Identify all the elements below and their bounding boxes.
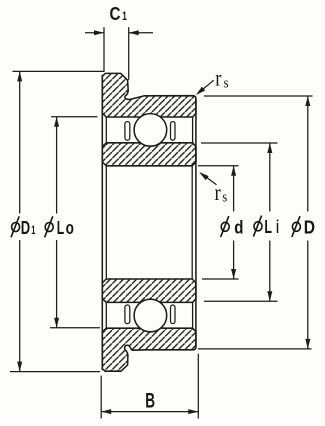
svg-text:B: B (145, 390, 155, 413)
svg-text:L: L (57, 217, 64, 238)
d dimension line (233, 166, 235, 279)
chamfer witness line right, bore (191, 166, 193, 279)
C1 extension line right (128, 27, 130, 80)
Lo bottom extension line (50, 327, 100, 329)
C1 extension line left (103, 27, 105, 71)
chamfer witness line left, ball gap upper (105, 117, 107, 143)
svg-text:L: L (264, 216, 272, 237)
cage slot lower left (125, 305, 130, 324)
Li arrow top (267, 143, 272, 153)
D1 arrow bottom (17, 362, 22, 372)
B extension line left (100, 376, 102, 419)
D bottom extension line (198, 348, 312, 350)
d top extension line (198, 165, 239, 167)
svg-text:r: r (215, 180, 221, 205)
svg-text:D: D (21, 217, 30, 238)
rs top leader arrow (194, 87, 205, 97)
d arrow top (231, 166, 236, 176)
Lo arrow top (54, 117, 59, 127)
rs bottom leader line (201, 173, 217, 185)
D1 top extension line (13, 70, 105, 72)
Li bottom extension line (204, 300, 278, 302)
Lo top extension line (51, 116, 98, 118)
B arrow left (101, 409, 111, 414)
B extension line right (197, 354, 199, 419)
B arrow right (188, 409, 198, 414)
svg-text:1: 1 (122, 9, 127, 23)
svg-text:C: C (110, 3, 121, 24)
C1 dimension line left tail (85, 32, 104, 34)
inner ring lower section (hatched) (102, 279, 196, 302)
chamfer witness line right, ball gap lower (192, 302, 194, 328)
svg-text:1: 1 (31, 223, 35, 237)
rs top leader line (198, 80, 214, 93)
svg-text:s: s (224, 76, 229, 92)
D top extension line (204, 95, 313, 97)
D1 dimension line (19, 71, 21, 371)
C1 arrow left (94, 30, 104, 35)
phi symbol of Li (253, 216, 262, 237)
ball upper (134, 114, 167, 147)
svg-text:r: r (215, 66, 221, 91)
d arrow bottom (231, 269, 236, 279)
cage slot upper right (171, 122, 176, 141)
chamfer witness line right, ball gap upper (192, 117, 194, 143)
Lo arrow bottom (54, 318, 59, 328)
svg-text:o: o (66, 217, 74, 238)
D dimension line (307, 96, 309, 349)
phi symbol of D (292, 216, 301, 237)
svg-text:D: D (304, 217, 315, 238)
Li arrow bottom (267, 291, 272, 301)
phi symbol of d (221, 216, 230, 237)
outer ring lower section with flange (hatched) (102, 328, 196, 371)
svg-text:i: i (276, 216, 279, 237)
svg-text:d: d (234, 217, 243, 238)
left face line (101, 75, 103, 370)
D1 bottom extension line (10, 371, 100, 373)
Li dimension line (269, 143, 271, 301)
d bottom extension line (202, 278, 239, 280)
inner ring upper section (hatched) (102, 143, 196, 166)
C1 dimension line right tail (129, 32, 153, 34)
chamfer witness line left, ball gap lower (105, 302, 107, 328)
right face line (195, 98, 197, 347)
D arrow top (305, 96, 310, 106)
cage slot upper left (125, 122, 130, 141)
C1 arrow right (129, 30, 139, 35)
D1 arrow top (17, 71, 22, 81)
svg-text:s: s (222, 190, 227, 206)
ball lower (134, 299, 167, 332)
rs bottom leader arrow (198, 170, 209, 180)
outer ring upper section with flange (hatched) (102, 73, 196, 117)
phi symbol of Lo (45, 216, 54, 237)
phi symbol of D1 (11, 216, 20, 237)
cage slot lower right (171, 305, 176, 324)
B dimension line (101, 411, 198, 413)
Lo dimension line (56, 117, 58, 328)
Li top extension line (201, 142, 278, 144)
chamfer witness line left, bore (105, 166, 107, 279)
D arrow bottom (305, 339, 310, 349)
